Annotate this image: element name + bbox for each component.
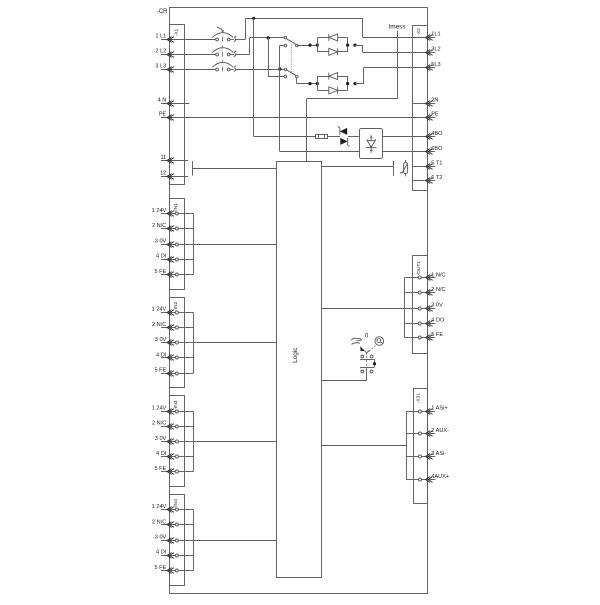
wire L3 node to coupler U1 (6BO path) <box>279 69 281 151</box>
wire switch to logic <box>366 367 368 381</box>
svg-text:2 AUX-: 2 AUX- <box>431 428 449 434</box>
terminal 3 0V of -IN1 <box>155 238 193 247</box>
terminal block -X1 <box>170 25 185 185</box>
junction <box>316 82 319 85</box>
bracket bus of -OUT1 <box>404 278 406 338</box>
switch mechanical dashed shaft <box>366 353 368 367</box>
svg-text:5 FE: 5 FE <box>431 332 443 338</box>
switch pole 1 contacts <box>360 355 374 359</box>
svg-text:11: 11 <box>160 155 166 161</box>
terminal 3 0V of -IN3 <box>155 436 193 445</box>
coupler / switching element U1 (box with breakdown diode) <box>360 129 383 159</box>
wire suppressor V3 to coupler U1 <box>348 136 360 138</box>
svg-text:12: 12 <box>160 171 166 177</box>
svg-text:4AUX+: 4AUX+ <box>431 474 449 480</box>
terminal 5 FE of -IN4 <box>154 565 193 574</box>
svg-text:-X2: -X2 <box>416 28 421 36</box>
bidirectional suppressor diode V3 (filled) <box>338 126 350 146</box>
terminal block -IN4 <box>170 495 185 586</box>
terminal 6 T2 <box>413 175 442 184</box>
wire L2 breaker to relay contact K1 <box>235 54 249 56</box>
circuit breaker pole 1 (L1) <box>212 33 236 42</box>
terminal 2 N/C of -IN1 <box>152 223 193 231</box>
svg-text:2 N/C: 2 N/C <box>152 322 166 328</box>
manual hand actuator symbol <box>351 338 361 344</box>
terminal 11 with stub wire <box>160 155 188 163</box>
wire L1 branch to resistor R1 <box>254 136 316 138</box>
junction <box>308 44 311 47</box>
junction <box>353 44 356 47</box>
svg-text:1 ASi+: 1 ASi+ <box>431 405 447 411</box>
wire L1 bus down to measuring resistor branch <box>253 18 255 136</box>
svg-text:4 DI: 4 DI <box>156 451 167 457</box>
svg-text:2 N/C: 2 N/C <box>152 421 166 427</box>
terminal 2 L2 with wire <box>155 49 215 58</box>
terminal 2 AUX- of -X31 <box>406 428 449 436</box>
svg-text:2 N/C: 2 N/C <box>152 223 166 229</box>
terminal block -X31 <box>414 389 428 504</box>
svg-text:Imess: Imess <box>388 24 405 31</box>
svg-text:3L2: 3L2 <box>431 47 440 53</box>
wire L1 breaker to top bus <box>235 39 245 41</box>
wire coupler U1 to terminal 4BO <box>382 136 428 138</box>
terminal block -OUT1 <box>413 256 428 354</box>
wire K1 common to diode pair V1 <box>297 45 318 47</box>
terminal block -IN2 <box>170 298 185 388</box>
terminal 3 ASi- of -X31 <box>406 451 446 459</box>
svg-text:0: 0 <box>365 333 369 340</box>
svg-text:1L1: 1L1 <box>431 32 440 38</box>
wire diode pair V2 to terminal 5L3 <box>355 83 364 85</box>
wire K1 lower fixed contact to L3 node <box>280 45 284 47</box>
actuator arrow (filled) <box>360 346 365 351</box>
wire coupler U1 to terminal 6BO <box>382 151 428 153</box>
junction <box>308 82 311 85</box>
svg-text:1 24V: 1 24V <box>152 208 167 214</box>
circuit breaker pole 2 (L2) <box>212 48 236 57</box>
switch coupling V <box>364 350 369 353</box>
svg-text:2N: 2N <box>431 98 438 104</box>
terminal 4 N with stub wire <box>158 97 190 106</box>
bracket bus of -IN3 <box>193 411 195 472</box>
svg-text:3 0V: 3 0V <box>431 303 443 309</box>
breaker manual actuator lever <box>217 27 224 33</box>
terminal 3 0V of -OUT1 <box>404 303 443 312</box>
svg-text:4 DI: 4 DI <box>156 550 167 556</box>
svg-text:6BO: 6BO <box>431 146 443 152</box>
terminal block -X2 <box>413 26 428 191</box>
svg-text:4 N: 4 N <box>158 97 167 103</box>
junction node L1 top bus <box>252 17 255 20</box>
svg-text:5L3: 5L3 <box>431 62 440 68</box>
svg-text:2 L2: 2 L2 <box>155 49 166 55</box>
svg-text:3 0V: 3 0V <box>155 535 167 541</box>
wire -IN3 0V to logic <box>193 441 276 443</box>
terminal 1 24V of -IN2 <box>152 307 194 316</box>
Imess current measuring line to logic <box>397 31 399 99</box>
wire L3 breaker to relay contact K2 <box>235 69 284 71</box>
svg-text:-CR: -CR <box>157 9 168 15</box>
svg-text:1 N/C: 1 N/C <box>431 272 445 278</box>
dashed link knob to switch <box>369 345 376 351</box>
wire K2 common to diode pair V2 <box>296 77 298 83</box>
wire logic to -OUT1 0V <box>322 308 404 310</box>
svg-text:5 FE: 5 FE <box>154 466 166 472</box>
switch bridge riser <box>374 359 376 367</box>
junction <box>346 82 349 85</box>
junction node L2 <box>267 36 270 39</box>
svg-text:1 24V: 1 24V <box>152 504 167 510</box>
terminal 3 0V of -IN2 <box>155 337 193 345</box>
svg-text:1 24V: 1 24V <box>152 307 167 313</box>
terminal 6BO <box>426 146 444 155</box>
terminal 4AUX+ of -X31 <box>406 474 449 483</box>
svg-text:6 T2: 6 T2 <box>431 175 442 181</box>
bracket bus of -X31 <box>406 411 408 479</box>
terminal 5 T1 <box>413 161 442 170</box>
wire -IN4 0V to logic <box>193 540 276 542</box>
wire interface bar to logic <box>192 168 276 170</box>
terminal 2N <box>413 98 439 107</box>
svg-text:5 T1: 5 T1 <box>431 161 442 167</box>
terminal 2 N/C of -IN2 <box>152 322 193 331</box>
mechanical link K1-K2 (dashed) <box>291 45 293 73</box>
svg-text:-X31: -X31 <box>416 393 422 404</box>
terminal PE with PE bus wire to right side <box>159 111 428 120</box>
breaker mechanical link (dashed) <box>222 37 224 72</box>
terminal 2 N/C of -IN4 <box>152 519 193 527</box>
terminal 4 DI of -IN2 <box>156 352 193 360</box>
junction <box>346 44 349 47</box>
svg-text:4 DO: 4 DO <box>431 317 445 323</box>
wire diode pair V1 to terminal 3L2 <box>355 45 363 47</box>
terminal 5 FE of -OUT1 <box>404 332 443 340</box>
svg-text:2 N/C: 2 N/C <box>152 519 166 525</box>
junction node L3 <box>278 67 281 70</box>
svg-text:3 0V: 3 0V <box>155 337 167 343</box>
svg-text:-OUT1: -OUT1 <box>416 261 422 276</box>
bracket bus of -IN4 <box>193 510 195 571</box>
svg-text:PE: PE <box>431 111 439 117</box>
wire -IN2 0V to logic <box>193 342 276 344</box>
svg-text:1 L1: 1 L1 <box>155 34 166 40</box>
rotary knob symbol <box>375 337 384 346</box>
svg-text:4 DI: 4 DI <box>156 254 167 260</box>
terminal 4 DI of -IN3 <box>156 451 193 459</box>
terminal 3 L3 with wire <box>155 63 215 72</box>
junction <box>353 82 356 85</box>
svg-text:4BO: 4BO <box>431 131 443 137</box>
terminal 1 24V of -IN4 <box>152 504 194 512</box>
control interface bar for terminals 11/12 <box>192 161 194 175</box>
terminal 5 FE of -IN3 <box>154 466 193 474</box>
wire K2 lower fixed contact to L2 node <box>268 76 284 78</box>
frame -CR enclosure <box>170 8 428 594</box>
svg-text:5 FE: 5 FE <box>154 269 166 275</box>
thermistor RT (motor PTC sensor) <box>400 160 408 176</box>
terminal PE (right) <box>426 111 440 120</box>
relay changeover contact K2 (phase reversing, lower) <box>284 68 298 78</box>
svg-text:5 FE: 5 FE <box>154 368 166 374</box>
terminal 1L1 <box>426 32 441 41</box>
junction <box>316 44 319 47</box>
relay changeover contact K1 (phase reversing, upper) <box>284 36 298 47</box>
terminal 1 L1 with wire <box>155 34 215 43</box>
resistor R1 <box>316 134 328 139</box>
terminal 5L3 <box>426 62 441 70</box>
svg-text:3 0V: 3 0V <box>155 238 167 244</box>
svg-text:-X1: -X1 <box>173 29 178 37</box>
terminal 1 N/C of -OUT1 <box>404 272 445 280</box>
antiparallel diode pair V1 (L2) <box>317 34 347 55</box>
terminal bar T1 <box>393 161 395 176</box>
switch pole 2 contacts <box>360 368 375 373</box>
terminal 2 N/C of -IN3 <box>152 421 193 430</box>
svg-text:5 FE: 5 FE <box>154 565 166 571</box>
terminal 4 DO of -OUT1 <box>404 317 445 326</box>
junction switch bridge <box>373 362 376 365</box>
antiparallel diode pair V2 (L3) <box>317 73 347 94</box>
wire resistor R1 to suppressor V3 <box>327 136 340 138</box>
wire logic to -X31 bus <box>322 445 406 447</box>
bracket bus of -IN2 <box>193 312 195 373</box>
terminal 5 FE of -IN2 <box>154 368 193 377</box>
terminal 2 N/C of -OUT1 <box>404 287 445 295</box>
svg-text:3 L3: 3 L3 <box>155 63 166 69</box>
terminal 1 ASi+ of -X31 <box>406 405 448 414</box>
wire logic to thermistor input T1 <box>322 166 394 168</box>
terminal 4 DI of -IN4 <box>156 550 193 559</box>
logic block U2 <box>277 162 322 578</box>
svg-text:2 N/C: 2 N/C <box>431 287 445 293</box>
svg-text:4 DI: 4 DI <box>156 352 167 358</box>
svg-text:PE: PE <box>159 111 167 117</box>
svg-text:3 0V: 3 0V <box>155 436 167 442</box>
svg-text:1 24V: 1 24V <box>152 405 167 411</box>
terminal 5 FE of -IN1 <box>154 269 193 278</box>
wire top bus down to terminal 1L1 <box>362 18 364 37</box>
circuit breaker pole 3 (L3) <box>212 62 236 71</box>
bracket bus of -IN1 <box>193 214 195 275</box>
terminal 4BO <box>426 131 444 140</box>
svg-text:Logic: Logic <box>292 347 299 363</box>
terminal 1 24V of -IN3 <box>152 405 194 414</box>
wire -IN1 0V to logic <box>193 244 276 246</box>
terminal 3L2 <box>426 47 441 56</box>
terminal block -IN3 <box>170 396 185 487</box>
terminal 3 0V of -IN4 <box>155 535 193 544</box>
terminal 1 24V of -IN1 <box>152 208 194 216</box>
svg-text:3 ASi-: 3 ASi- <box>431 451 446 457</box>
terminal block -IN1 <box>170 199 185 290</box>
terminal 4 DI of -IN1 <box>156 254 193 263</box>
terminal 12 with stub wire <box>160 171 188 180</box>
